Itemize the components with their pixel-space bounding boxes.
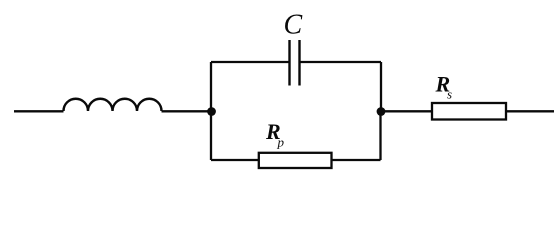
wire top branch left horizontal [211,61,290,63]
wire bottom branch right vertical [379,112,381,161]
capacitor C [290,40,300,86]
wire top branch left vertical [210,62,212,112]
node A (left junction dot) [207,107,216,116]
wire bottom branch right horizontal [332,159,381,161]
wire inductor to node A [162,110,212,112]
wire top branch right horizontal [300,61,382,63]
label Rp [265,119,285,150]
resistor Rs [432,103,506,120]
wire bottom branch left horizontal [211,159,259,161]
wire bottom branch left vertical [210,112,212,161]
svg-text:s: s [447,87,452,102]
svg-text:p: p [277,135,285,150]
label Rs [435,71,453,101]
wire node B to Rs [381,110,432,112]
resistor Rp [259,153,332,168]
node B (right junction dot) [377,107,386,116]
wire left lead [14,110,64,112]
wire top branch right vertical [380,62,382,112]
svg-text:C: C [284,10,303,41]
wire right lead [506,110,554,112]
inductor L1 [64,99,162,111]
